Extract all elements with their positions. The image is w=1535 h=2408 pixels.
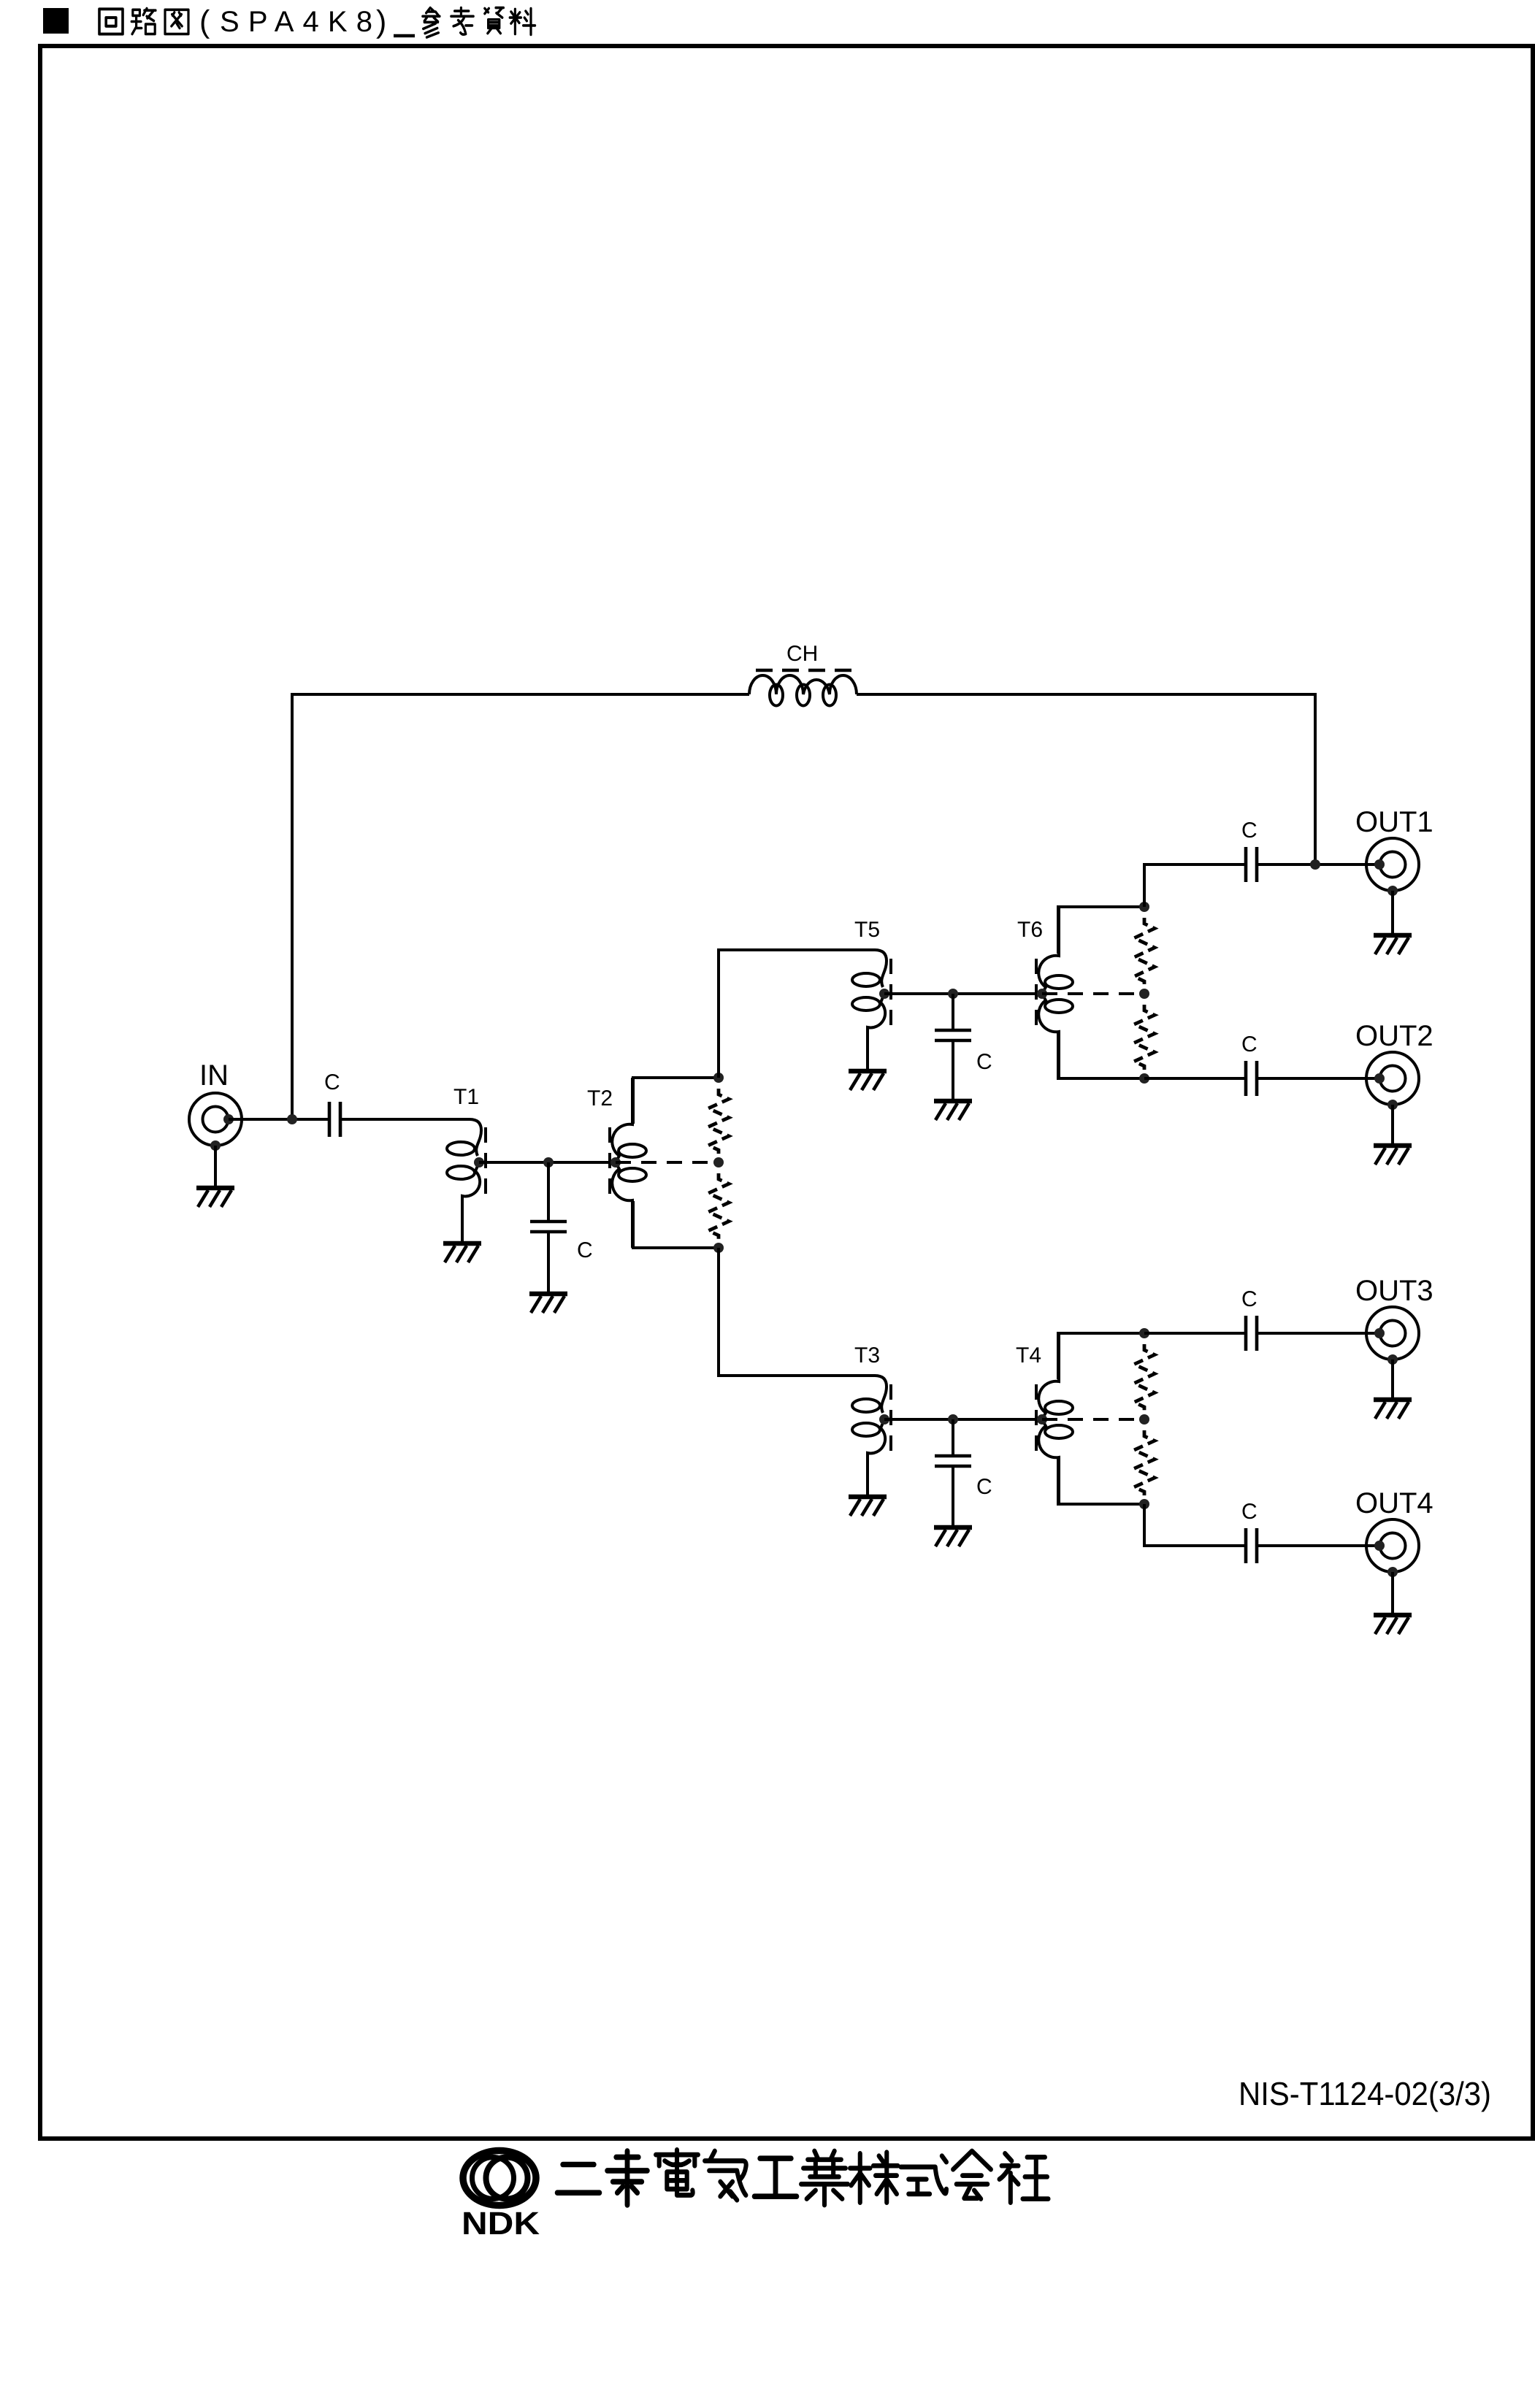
resistor R (lower, after T2) dashed zigzag bbox=[708, 1173, 729, 1241]
company name 社 bbox=[1000, 2153, 1049, 2202]
svg-text:C: C bbox=[976, 1050, 992, 1074]
company name 幸 bbox=[608, 2151, 648, 2205]
svg-text:C: C bbox=[1241, 1500, 1258, 1524]
svg-text:C: C bbox=[1241, 1287, 1258, 1311]
svg-text:OUT3: OUT3 bbox=[1355, 1275, 1433, 1307]
svg-text:OUT1: OUT1 bbox=[1355, 806, 1433, 838]
svg-text:IN: IN bbox=[199, 1059, 229, 1092]
svg-text:NDK: NDK bbox=[462, 2206, 540, 2242]
capacitor C (OUT1) plates bbox=[1244, 847, 1248, 882]
capacitor C (shunt after T5) bbox=[952, 994, 954, 1030]
svg-text:OUT2: OUT2 bbox=[1355, 1020, 1433, 1052]
ground OUT4 bbox=[1387, 1567, 1398, 1577]
wire top junction up to T5 bbox=[719, 950, 851, 1078]
resistor R (lower, after T6) bbox=[1134, 1005, 1155, 1072]
company name 業 bbox=[801, 2151, 848, 2205]
capacitor C (OUT3) plates bbox=[1244, 1316, 1248, 1351]
svg-text:C: C bbox=[976, 1475, 992, 1499]
transformer T4 winding (mirrored) bbox=[1038, 1333, 1059, 1504]
node T2 resistor mid junction bbox=[713, 1157, 724, 1167]
svg-text:T1: T1 bbox=[453, 1085, 479, 1109]
wire CH net: junction to top-left riser bbox=[292, 694, 749, 1119]
node T5 tap bbox=[879, 989, 889, 999]
capacitor C (series, IN) plates bbox=[328, 1102, 332, 1137]
node junction C (after T3) bbox=[948, 1414, 958, 1425]
node T2 resistor bottom junction bbox=[713, 1243, 724, 1253]
node T6 resistor top junction bbox=[1139, 902, 1149, 912]
inductor CH core dashes bbox=[756, 669, 851, 672]
wire T6 top to resistor top junction bbox=[1058, 907, 1144, 954]
transformer T2 core dashes bbox=[608, 1127, 611, 1195]
node T4 resistor top junction bbox=[1139, 1328, 1149, 1338]
node T4 resistor mid junction bbox=[1139, 1414, 1149, 1425]
svg-text:CH: CH bbox=[786, 642, 818, 666]
title kanji 回 bbox=[99, 9, 123, 34]
node junction C (after T5) bbox=[948, 989, 958, 999]
transformer T5 core dashes bbox=[889, 959, 892, 1027]
svg-text:C: C bbox=[324, 1070, 340, 1094]
logo NDK rings bbox=[463, 2151, 536, 2206]
resistor R (upper, after T4) bbox=[1134, 1344, 1155, 1413]
company name 工 bbox=[754, 2158, 797, 2196]
company name 気 bbox=[705, 2151, 746, 2200]
capacitor C (OUT2) plates bbox=[1244, 1061, 1248, 1096]
svg-text:NIS-T1124-02(3/3): NIS-T1124-02(3/3) bbox=[1239, 2075, 1491, 2112]
transformer T1 winding bbox=[340, 1119, 481, 1241]
node T4 input dot bbox=[1037, 1414, 1047, 1425]
wire T3 tap to T4 bbox=[884, 1418, 1042, 1421]
svg-text:C: C bbox=[577, 1238, 593, 1262]
ground C (shunt after T3) bbox=[934, 1527, 972, 1546]
wire dashed center tap T6 to resistor mid bbox=[1042, 992, 1144, 995]
title kanji 考 bbox=[451, 8, 473, 35]
wire bottom junction down to T3 bbox=[719, 1248, 851, 1376]
wire C to OUT3 bbox=[1257, 1332, 1379, 1335]
wire C to OUT4 bbox=[1257, 1544, 1379, 1547]
svg-text:T3: T3 bbox=[854, 1343, 880, 1368]
svg-text:T5: T5 bbox=[854, 918, 880, 942]
svg-text:OUT4: OUT4 bbox=[1355, 1487, 1433, 1519]
transformer T4 core dashes bbox=[1035, 1384, 1038, 1452]
wire T6 bottom to resistor bottom junction bbox=[1058, 1032, 1144, 1078]
capacitor C (shunt after T1) bbox=[547, 1162, 550, 1222]
transformer T6 core dashes bbox=[1035, 959, 1038, 1027]
title kanji 料 bbox=[510, 9, 535, 35]
node T6 resistor bottom junction bbox=[1139, 1073, 1149, 1084]
ground T3 bbox=[849, 1497, 887, 1516]
ground C (shunt after T1) bbox=[529, 1294, 567, 1313]
company name 式 bbox=[901, 2156, 946, 2194]
ground OUT1 bbox=[1387, 886, 1398, 896]
wire C to OUT2 bbox=[1257, 1077, 1379, 1080]
node junction CH riser / OUT1 bbox=[1310, 859, 1320, 870]
connector IN inner circle bbox=[203, 1107, 229, 1132]
ground C (shunt after T5) bbox=[934, 1101, 972, 1120]
title kanji 参 bbox=[423, 8, 440, 38]
node T6 input dot bbox=[1037, 989, 1047, 999]
wire T4 top to resistor top junction bbox=[1058, 1333, 1144, 1379]
node T2 resistor top junction bbox=[713, 1073, 724, 1083]
title kanji 図 bbox=[165, 9, 188, 34]
svg-text:C: C bbox=[1241, 1032, 1258, 1057]
wire OUT4 net bbox=[1144, 1504, 1246, 1546]
node T1 tap bbox=[474, 1157, 484, 1167]
wire C to OUT1 bbox=[1257, 863, 1379, 866]
wire CH right segment and riser down to OUT1 line bbox=[857, 694, 1315, 864]
title underscore bbox=[394, 34, 415, 38]
transformer T3 core dashes bbox=[889, 1384, 892, 1452]
node IN contact dot bbox=[223, 1114, 234, 1124]
transformer T1 core dashes bbox=[484, 1127, 487, 1195]
wire IN to C bbox=[229, 1118, 329, 1121]
wire dashed center tap T4 to resistor mid bbox=[1042, 1418, 1144, 1421]
node junction C (shunt after T1) bbox=[543, 1157, 554, 1167]
company name 電 bbox=[656, 2150, 698, 2195]
ground IN: dot, wire, symbol bbox=[210, 1140, 221, 1151]
capacitor C (OUT4) plates bbox=[1244, 1528, 1248, 1563]
wire OUT1 net bbox=[1144, 864, 1246, 907]
transformer T2 winding (mirrored) bbox=[612, 1078, 632, 1248]
svg-text:): ) bbox=[376, 4, 386, 39]
transformer T6 winding (mirrored) bbox=[1038, 907, 1059, 1078]
ground T5 bbox=[849, 1071, 887, 1090]
connector OUT2 bbox=[1366, 1052, 1419, 1105]
title kanji 資 bbox=[485, 8, 504, 34]
resistor R (upper, after T6) bbox=[1134, 918, 1155, 987]
svg-text:T4: T4 bbox=[1016, 1343, 1041, 1368]
svg-text:T6: T6 bbox=[1017, 918, 1043, 942]
wire T1 tap to T2 bbox=[479, 1161, 616, 1164]
wire OUT2 net bbox=[1144, 1077, 1246, 1080]
transformer T5 winding bbox=[847, 950, 887, 1069]
node T2 input dot bbox=[610, 1157, 621, 1167]
wire dashed center tap T2 to resistor mid bbox=[616, 1161, 719, 1164]
transformer T3 winding bbox=[847, 1376, 887, 1495]
inductor CH coil bbox=[749, 675, 857, 694]
svg-text:T2: T2 bbox=[587, 1086, 613, 1111]
company name 株 bbox=[850, 2152, 897, 2203]
ground OUT3 bbox=[1387, 1354, 1398, 1365]
capacitor C (shunt after T3) bbox=[952, 1419, 954, 1456]
resistor R (lower, after T4) bbox=[1134, 1430, 1155, 1498]
ground T1 bbox=[443, 1243, 481, 1262]
connector IN outer circle bbox=[189, 1093, 242, 1146]
wire T2 bottom to resistor bottom junction bbox=[633, 1201, 719, 1248]
title bullet square bbox=[43, 8, 69, 34]
connector OUT1 bbox=[1366, 838, 1419, 891]
wire T2 top to resistor top junction bbox=[633, 1078, 719, 1124]
resistor R (upper, after T2) dashed zigzag bbox=[708, 1089, 729, 1156]
wire OUT3 net bbox=[1144, 1332, 1246, 1335]
node T4 resistor bottom junction bbox=[1139, 1499, 1149, 1509]
wire T4 bottom to resistor bottom junction bbox=[1058, 1458, 1144, 1504]
title kanji 路 bbox=[131, 9, 156, 34]
svg-text:(: ( bbox=[199, 4, 210, 39]
wire T5 tap to T6 bbox=[884, 992, 1042, 995]
ground OUT2 bbox=[1387, 1100, 1398, 1110]
node junction IN/CH bbox=[287, 1114, 297, 1124]
node T3 tap bbox=[879, 1414, 889, 1425]
connector OUT3 bbox=[1366, 1307, 1419, 1360]
company name 二 bbox=[557, 2165, 600, 2193]
svg-text:C: C bbox=[1241, 818, 1258, 843]
company name 会 bbox=[953, 2151, 991, 2199]
connector OUT4 bbox=[1366, 1519, 1419, 1572]
node T6 resistor mid junction bbox=[1139, 989, 1149, 999]
